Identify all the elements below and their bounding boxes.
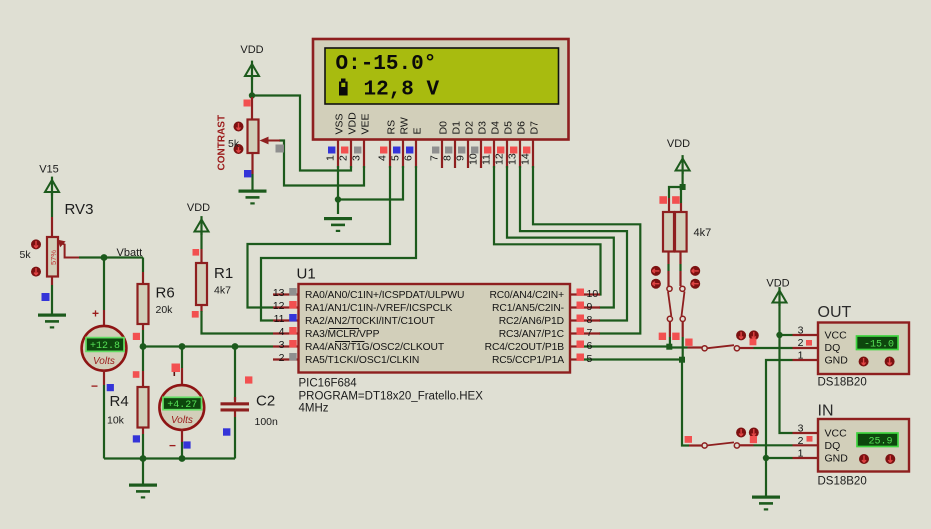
wire RW pin5 to VSS ground node [338,166,403,200]
wire IN GND stub connection [766,457,793,459]
svg-text:12: 12 [494,153,506,165]
svg-text:GND: GND [825,453,849,465]
wire OUT GND left and down [766,360,793,458]
svg-text:7: 7 [429,155,441,161]
LCD pin stubs 1-14 [338,140,533,168]
pin 1 stub GND [793,457,818,459]
pin 9 stub RC1 [571,306,601,308]
svg-text:GND: GND [825,355,849,367]
pin 3 stub VCC [793,432,818,434]
svg-text:RA5/T1CKI/OSC1/CLKIN: RA5/T1CKI/OSC1/CLKIN [305,355,419,366]
power VDD (DS18B20) [766,278,789,336]
svg-text:RS: RS [386,120,398,135]
svg-text:VCC: VCC [825,330,848,342]
wire D5 pin12 to U1 RC1 [507,166,614,308]
pin 8 stub RC2 [571,319,601,321]
svg-text:D0: D0 [438,121,450,135]
svg-text:1: 1 [798,448,804,460]
svg-text:RC1/AN5/C2IN-: RC1/AN5/C2IN- [492,303,564,314]
ground (RV3) [38,314,66,329]
wire R1 to U1 RA3 [202,311,274,334]
svg-text:+: + [92,307,99,321]
svg-text:D7: D7 [529,121,541,135]
svg-text:CONTRAST: CONTRAST [217,115,228,171]
pin 12 stub RA1 [273,306,298,308]
pin 7 stub RC3 [571,332,601,334]
wire RV3 wiper to Vbatt node [79,256,143,258]
svg-text:4k7: 4k7 [214,285,231,297]
wire VEE pin3 to contrast wiper [279,141,364,186]
power V15 [39,164,59,218]
resistor RP1 4k7 (left of pair) [659,196,674,264]
svg-text:R4: R4 [110,393,129,410]
svg-text:R6: R6 [156,285,175,302]
switch SW4 (IN DQ, horizontal) [685,428,817,449]
svg-text:RA1/AN1/C1IN-/VREF/ICSPCLK: RA1/AN1/C1IN-/VREF/ICSPCLK [305,303,453,314]
wire VSS pin1 to ground [337,166,339,214]
svg-text:VDD: VDD [766,278,789,290]
pin 1 stub GND [793,359,818,361]
svg-text:13: 13 [273,287,285,299]
svg-text:6: 6 [587,340,593,352]
node VM2 top [179,343,186,350]
svg-text:11: 11 [274,313,285,325]
microcontroller U1 PIC16F684 [273,266,600,415]
voltmeter VM1 +12.8 [82,258,127,459]
svg-text:O:-15.0°: O:-15.0° [336,53,437,76]
svg-text:5k: 5k [228,138,240,150]
svg-text:7: 7 [587,327,593,339]
svg-text:PROGRAM=DT18x20_Fratello.HEX: PROGRAM=DT18x20_Fratello.HEX [299,391,484,403]
node C2 top [232,343,239,350]
svg-text:RA2/AN2/T0CKI/INT/C1OUT: RA2/AN2/T0CKI/INT/C1OUT [305,316,436,327]
svg-text:12,8 V: 12,8 V [364,79,440,102]
wire VDD junction to OUT VCC [780,334,793,336]
svg-text:D3: D3 [477,121,489,135]
svg-text:U1: U1 [297,266,316,283]
ground (LCD VSS) [324,217,352,232]
svg-text:VCC: VCC [825,428,848,440]
wire RS pin4 to U1 RA1 [248,166,391,308]
svg-text:PIC16F684: PIC16F684 [299,378,358,390]
pin 2 stub RA5 [273,358,298,360]
svg-text:E: E [412,127,424,134]
wire ground stem (right) [765,458,767,496]
voltmeter VM2 +4.27 [159,347,204,459]
overbar marks on AN2/T0CKI and MCLR/VPP [329,329,365,342]
wire E pin6 to U1 RA2 [261,166,416,321]
right pin numbers [587,288,599,365]
svg-text:3: 3 [798,423,804,435]
svg-text:DS18B20: DS18B20 [818,377,867,389]
LCD pin state squares [328,147,530,154]
svg-text:8: 8 [587,314,593,326]
LCD pin numbers 1-14 [325,153,532,165]
node RC5/switch junction [679,357,685,363]
pin names [305,290,464,366]
svg-text:-15.0: -15.0 [864,339,894,350]
svg-text:3: 3 [798,325,804,337]
power VDD (contrast) [240,44,263,97]
svg-text:DQ: DQ [825,342,841,354]
svg-text:Volts: Volts [93,356,115,367]
svg-text:D5: D5 [503,121,515,135]
left pin state squares [289,288,297,296]
svg-text:R1: R1 [214,265,233,282]
node IN GND junction [763,455,769,461]
wire ground stem (bottom rail) [142,459,144,485]
svg-text:9: 9 [455,155,467,161]
gray square (contrast wiper node) [276,145,284,153]
svg-text:4k7: 4k7 [694,227,712,239]
svg-text:RW: RW [399,117,411,134]
svg-text:−: − [169,439,176,453]
svg-text:−: − [91,379,98,393]
svg-text:5: 5 [390,155,402,161]
wire VDD rail down to IN VCC [780,335,793,433]
wire U1 RC5 to IN switch [583,360,689,446]
svg-text:25.9: 25.9 [868,436,892,447]
svg-text:2: 2 [798,435,804,447]
svg-text:57%: 57% [49,250,58,265]
power VDD (R1) [187,202,210,249]
svg-text:RA3/MCLR/VPP: RA3/MCLR/VPP [305,329,380,340]
ground (DS18B20s) [752,496,780,511]
svg-text:4: 4 [279,326,285,338]
right pin state squares [577,289,585,296]
svg-text:VSS: VSS [334,113,346,134]
svg-text:RC2/AN6/P1D: RC2/AN6/P1D [499,316,564,327]
svg-text:C2: C2 [256,393,275,410]
node VSS/RW junction [335,196,341,202]
switch SW2 (vertical, right) [680,264,700,360]
svg-text:5k: 5k [20,249,32,261]
wire D4 pin11 to U1 RC0 [494,166,601,295]
svg-text:DS18B20: DS18B20 [818,476,867,488]
svg-text:D1: D1 [451,121,463,135]
svg-text:4MHz: 4MHz [299,403,329,415]
svg-text:14: 14 [520,153,532,165]
contrast pot 5k [217,97,281,190]
svg-text:RA0/AN0/C1IN+/ICSPDAT/ULPWU: RA0/AN0/C1IN+/ICSPDAT/ULPWU [305,290,464,301]
svg-text:+4.27: +4.27 [167,400,197,411]
resistor R4 10k [107,347,149,459]
red squares near switch bottoms [659,333,666,340]
temperature sensor OUT DS18B20 [793,304,910,389]
pin 11 stub RA2 [273,319,298,321]
node VM2 bottom [179,455,186,462]
left pin numbers [273,287,285,364]
LCD pin labels VSS VDD VEE RS RW E D0-D7 [334,112,541,135]
ground (bottom rail) [129,484,157,499]
power VDD (4k7 pull-ups) [667,138,690,187]
pin 6 stub RC4 [571,345,584,347]
svg-text:+12.8: +12.8 [90,341,120,352]
node R4 bottom [140,455,147,462]
svg-text:3: 3 [279,339,285,351]
svg-text:D2: D2 [464,121,476,135]
svg-text:Vbatt: Vbatt [117,247,143,259]
svg-text:D4: D4 [490,121,502,135]
pin 3 stub RA4 [273,345,298,347]
switch SW1 (vertical, left) [651,264,673,347]
pin 3 stub VCC [793,334,818,336]
pin 10 stub RC0 [571,293,601,295]
wire D7 pin14 to U1 RC3 [533,166,640,334]
wire VDD to both 4k7 resistors [669,187,683,203]
svg-text:1: 1 [325,155,337,161]
svg-text:2: 2 [279,352,285,364]
pin 5 stub RC5 [571,358,584,360]
svg-text:6: 6 [403,155,415,161]
wire mid rail to U1 RA4 [143,345,273,347]
node Vbatt [101,254,108,261]
svg-text:RV3: RV3 [65,201,94,218]
svg-text:10k: 10k [107,415,125,427]
temperature sensor IN DS18B20 [793,403,910,488]
svg-text:RC5/CCP1/P1A: RC5/CCP1/P1A [492,355,564,366]
svg-text:8: 8 [442,155,454,161]
svg-text:IN: IN [818,403,834,420]
svg-text:13: 13 [507,153,519,165]
svg-text:VDD: VDD [347,112,359,135]
wire D6 pin13 to U1 RC2 [520,166,627,321]
pin 13 stub RA0 [273,293,298,295]
svg-text:Volts: Volts [171,415,193,426]
svg-text:VEE: VEE [360,113,372,134]
svg-text:RC3/AN7/P1C: RC3/AN7/P1C [499,329,565,340]
wire bottom rail [104,457,235,459]
potentiometer RV3 [20,201,94,314]
svg-text:RC4/C2OUT/P1B: RC4/C2OUT/P1B [485,342,565,353]
svg-text:V15: V15 [39,164,59,176]
svg-text:20k: 20k [156,304,174,316]
svg-text:10: 10 [468,153,480,165]
svg-text:DQ: DQ [825,440,841,452]
svg-text:VDD: VDD [240,44,263,56]
svg-text:2: 2 [338,155,350,161]
svg-text:VDD: VDD [667,138,690,150]
switch SW3 (OUT DQ, horizontal) [688,330,818,351]
wire VDD pin2 to contrast pot top [252,96,351,171]
svg-text:9: 9 [587,301,593,313]
ground (contrast pot) [239,190,267,205]
svg-text:RC0/AN4/C2IN+: RC0/AN4/C2IN+ [489,290,564,301]
svg-text:12: 12 [273,300,285,312]
svg-text:D6: D6 [516,121,528,135]
resistor R6 20k [133,258,175,347]
svg-text:VDD: VDD [187,202,210,214]
svg-text:RA4/AN3/T1G/OSC2/CLKOUT: RA4/AN3/T1G/OSC2/CLKOUT [305,342,445,353]
node R6/R4 [140,343,147,350]
svg-text:OUT: OUT [818,304,852,321]
capacitor C2 100n [221,347,279,459]
svg-text:11: 11 [481,154,493,165]
wire U1 RC4 to OUT switch [583,347,688,348]
svg-text:10: 10 [587,288,599,300]
node VDD/OUT VCC junction [776,332,782,338]
svg-text:4: 4 [377,155,389,161]
svg-text:3: 3 [351,155,363,161]
pin 4 stub RA3 [273,332,298,334]
node RC4/switch junction [666,344,672,350]
node contrast pot top junction [249,92,255,98]
svg-text:5: 5 [587,353,593,365]
svg-text:2: 2 [798,337,804,349]
svg-text:100n: 100n [255,416,279,428]
resistor RP2 4k7 (right of pair) [672,196,711,264]
resistor R1 4k7 [192,249,233,318]
svg-text:1: 1 [798,350,804,362]
node 4k7 top junction [680,184,686,190]
LCD display module LM016L [313,39,569,140]
